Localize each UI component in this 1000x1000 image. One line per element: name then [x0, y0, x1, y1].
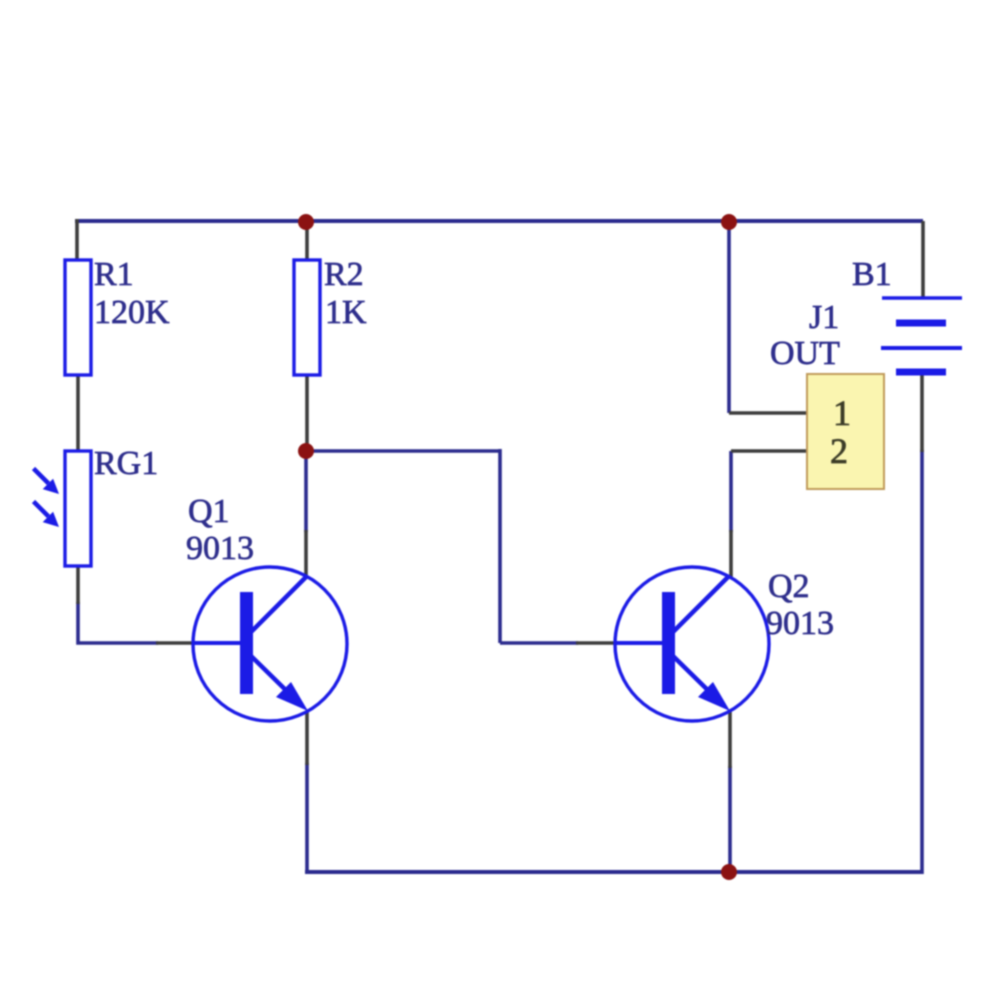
svg-text:1K: 1K — [325, 294, 367, 331]
transistor Q1 — [193, 567, 347, 721]
svg-text:9013: 9013 — [186, 530, 254, 567]
svg-text:R2: R2 — [324, 256, 364, 293]
wire RG1 bottom corner to Q1 base — [78, 602, 158, 643]
wire bottom rail — [305, 870, 922, 874]
svg-text:B1: B1 — [852, 256, 892, 293]
junction dot bottom rail — [721, 864, 737, 880]
wire right vertical battery to bottom rail — [920, 450, 924, 874]
pin Q1 base — [156, 641, 195, 645]
svg-text:Q1: Q1 — [188, 493, 230, 530]
pin Q2 collector — [729, 530, 733, 577]
wire dot(729,222) to J1 pin1 vertical — [727, 221, 731, 413]
RG1 light arrow 2 — [34, 502, 60, 528]
RG1 light arrow 1 — [34, 469, 60, 495]
wire J1 pin2 corner down to Q2 collector — [729, 451, 733, 532]
wire Q1 emitter down to bottom rail — [305, 763, 309, 872]
resistor R2 — [294, 260, 320, 375]
pin B1 bottom — [920, 375, 924, 452]
svg-text:OUT: OUT — [770, 335, 840, 372]
svg-text:2: 2 — [830, 431, 848, 471]
wire top rail — [75, 219, 923, 223]
wire junction down to Q1 collector — [304, 451, 308, 532]
pin Q1 collector — [304, 530, 308, 577]
pin RG1 bottom — [76, 565, 80, 604]
svg-text:J1: J1 — [809, 299, 839, 336]
svg-text:9013: 9013 — [766, 605, 834, 642]
resistor R1 — [65, 260, 91, 375]
svg-text:R1: R1 — [94, 256, 134, 293]
svg-text:RG1: RG1 — [94, 445, 158, 482]
pin R2 bottom — [305, 374, 309, 449]
pin Q2 base — [576, 641, 616, 645]
pin J1 pin1 wire — [729, 411, 808, 415]
junction dot top R2 — [298, 214, 314, 230]
svg-text:Q2: Q2 — [768, 568, 810, 605]
pin J1 pin2 wire — [731, 449, 808, 453]
battery B1 — [881, 298, 962, 372]
svg-text:120K: 120K — [94, 294, 170, 331]
svg-text:1: 1 — [833, 393, 851, 433]
pin Q2 emitter — [728, 712, 732, 768]
pin Q1 emitter — [305, 712, 309, 765]
pin R1 bottom to RG1 top — [76, 374, 80, 453]
junction dot top right — [721, 214, 737, 230]
pin B1 top — [921, 221, 925, 297]
resistor RG1 photoresistor body — [65, 451, 91, 566]
wire node R2 bottom junction to right — [305, 449, 500, 453]
wire horizontal to Q2 base — [500, 641, 578, 645]
junction dot R2 bottom — [298, 443, 314, 459]
wire vertical x500 down — [498, 449, 502, 643]
connector J1 box — [807, 374, 884, 489]
wire Q2 emitter down to bottom rail — [728, 766, 732, 872]
pin R2 top — [305, 222, 309, 262]
transistor Q2 — [615, 567, 769, 721]
pin R1 top — [75, 219, 79, 262]
